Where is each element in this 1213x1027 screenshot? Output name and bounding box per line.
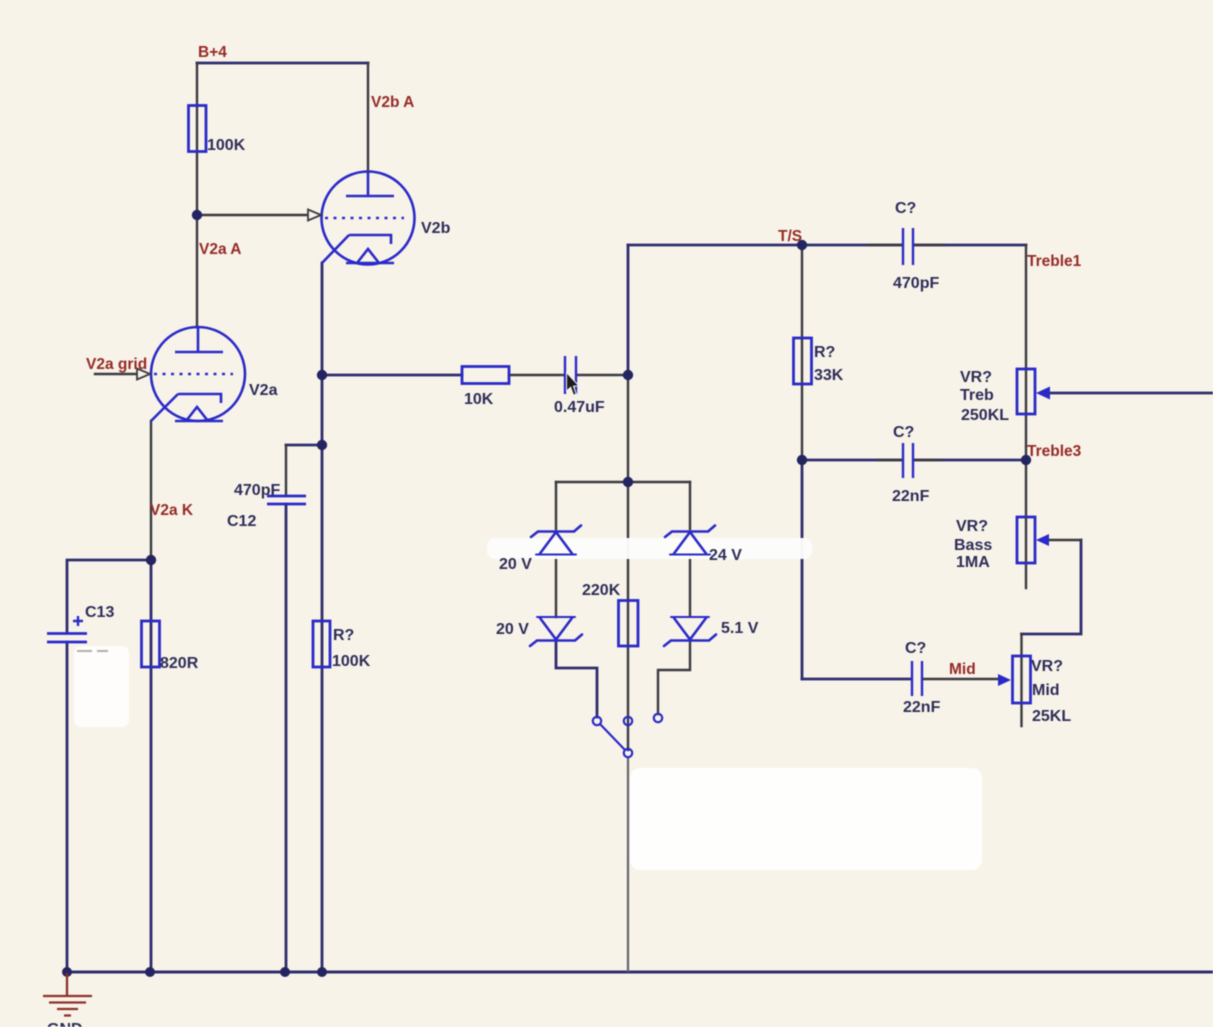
- svg-text:Mid: Mid: [1032, 682, 1060, 699]
- svg-text:GND: GND: [47, 1021, 83, 1027]
- svg-text:VR?: VR?: [1031, 658, 1063, 675]
- svg-text:20 V: 20 V: [496, 621, 529, 638]
- svg-text:250KL: 250KL: [961, 407, 1009, 424]
- svg-text:Treb: Treb: [960, 387, 994, 404]
- svg-text:Mid: Mid: [949, 661, 976, 678]
- svg-text:V2a K: V2a K: [150, 502, 194, 519]
- svg-text:220K: 220K: [582, 582, 621, 599]
- svg-text:24 V: 24 V: [709, 547, 742, 564]
- svg-text:V2b A: V2b A: [371, 94, 414, 111]
- svg-text:R?: R?: [814, 344, 835, 361]
- svg-text:C?: C?: [905, 640, 926, 657]
- svg-text:5.1 V: 5.1 V: [721, 620, 759, 637]
- svg-text:V2a: V2a: [249, 382, 278, 399]
- svg-text:C13: C13: [85, 604, 114, 621]
- svg-text:V2a grid: V2a grid: [86, 356, 147, 373]
- svg-text:33K: 33K: [814, 367, 844, 384]
- svg-text:C12: C12: [227, 513, 256, 530]
- svg-text:20 V: 20 V: [499, 556, 532, 573]
- svg-text:T/S: T/S: [778, 228, 802, 245]
- svg-text:C?: C?: [895, 200, 916, 217]
- svg-text:V2a A: V2a A: [199, 241, 242, 258]
- svg-text:470pF: 470pF: [234, 482, 280, 499]
- svg-text:470pF: 470pF: [893, 275, 939, 292]
- svg-text:820R: 820R: [160, 655, 199, 672]
- svg-text:Treble1: Treble1: [1027, 253, 1082, 270]
- svg-text:0.47uF: 0.47uF: [554, 399, 605, 416]
- svg-text:Bass: Bass: [954, 537, 992, 554]
- svg-text:10K: 10K: [464, 391, 494, 408]
- svg-text:25KL: 25KL: [1032, 708, 1071, 725]
- svg-text:Treble3: Treble3: [1027, 443, 1082, 460]
- svg-text:V2b: V2b: [421, 220, 451, 237]
- svg-text:R?: R?: [333, 627, 354, 644]
- svg-text:B+4: B+4: [198, 44, 227, 61]
- svg-text:100K: 100K: [207, 137, 246, 154]
- svg-text:1MA: 1MA: [956, 554, 990, 571]
- svg-text:22nF: 22nF: [892, 488, 930, 505]
- svg-text:VR?: VR?: [956, 518, 988, 535]
- svg-text:22nF: 22nF: [903, 699, 941, 716]
- svg-text:100K: 100K: [332, 653, 371, 670]
- svg-text:VR?: VR?: [960, 369, 992, 386]
- svg-text:C?: C?: [893, 424, 914, 441]
